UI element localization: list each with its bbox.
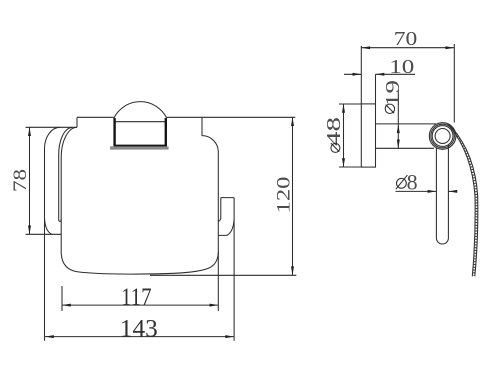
dimension 70: line and right extension: [361, 44, 454, 123]
side view: curved wire outer: [451, 126, 478, 276]
front view: plate bottom-right fillet: [219, 219, 235, 235]
dimension 117: line and extensions: [62, 286, 218, 311]
dimension d19: line and arrows: [397, 90, 399, 148]
side view: coil outer circle: [429, 123, 456, 150]
front view: 120 bottom extension line: [150, 274, 296, 276]
svg-text:117: 117: [121, 284, 152, 311]
side view: curved wire hatch texture: [449, 125, 476, 276]
svg-text:78: 78: [10, 169, 31, 192]
front view: flap top edge: [115, 121, 166, 123]
svg-text:70: 70: [394, 28, 418, 50]
dimension d8: arrows: [448, 190, 457, 192]
side view: coil middle circle: [431, 124, 455, 148]
front view: flap bottom edge: [114, 145, 167, 147]
front view: left step on top edge: [76, 117, 78, 127]
dimension d48: line, extensions, arrows: [339, 104, 361, 167]
front view: cover body outline: [61, 117, 218, 274]
front view: cover right edge extension to 117 dim: [217, 252, 219, 311]
dimension d19: diameter symbol: [385, 104, 394, 113]
dimension 10: lines and outside arrows: [344, 73, 415, 75]
svg-text:143: 143: [120, 315, 158, 342]
dimension 120: line: [292, 117, 294, 275]
front view: back plate top edge left segment / 78 top extension line: [26, 126, 78, 128]
front view: plate outer left corner and edge (continues as 143 extension): [45, 127, 61, 340]
svg-text:48: 48: [323, 117, 345, 146]
side view: stem top and bottom lines (d19 post): [376, 124, 437, 148]
front view: hanger rod seen from front: [219, 198, 235, 341]
front view: cover left rolled lip (J line): [59, 128, 72, 222]
dimension d48: diameter symbol: [331, 143, 340, 152]
side view: coil inner circle: [435, 129, 450, 144]
side view: flange right edge extension up to 10 dim: [375, 74, 377, 104]
svg-text:10: 10: [389, 56, 414, 78]
side view: flange left edge extension up to 70 dim: [360, 46, 362, 104]
dimension 143: line and extension: [45, 336, 234, 338]
front view: dome arc over flap: [114, 102, 167, 119]
side view: hanger rod: [436, 145, 448, 245]
svg-text:8: 8: [407, 170, 418, 195]
side view: wall flange rectangle: [361, 104, 375, 167]
front view: plate bottom-left fillet: [45, 219, 53, 235]
svg-text:19: 19: [382, 80, 404, 107]
dimension 78: line and extension: [26, 127, 62, 234]
front view: flap gray shadow bar: [110, 146, 169, 149]
side view: coil third circle: [432, 126, 453, 147]
svg-text:120: 120: [273, 177, 294, 214]
front view: flap side edges: [115, 118, 166, 146]
front view: top edge line of cover: [77, 116, 295, 118]
dimension d8: diameter symbol: [397, 178, 407, 188]
side view: curved wire inner: [448, 124, 476, 277]
